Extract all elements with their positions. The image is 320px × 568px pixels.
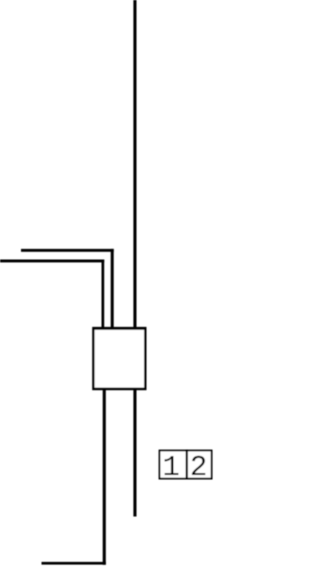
svg-text:2: 2 <box>190 451 207 484</box>
svg-text:1: 1 <box>162 451 179 484</box>
